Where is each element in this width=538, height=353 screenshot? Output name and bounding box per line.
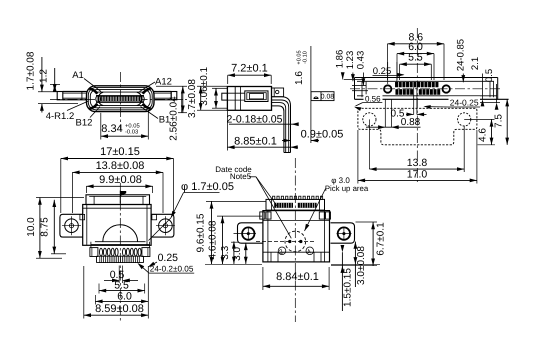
view A tongue lower line	[96, 101, 144, 103]
view D left ear junction square	[80, 214, 85, 219]
svg-text:0.43: 0.43	[355, 51, 366, 70]
dim 9.6±0.15 line	[211, 201, 213, 264]
dim 4.6±0.08 line	[222, 216, 224, 264]
svg-text:24-0.2±0.05: 24-0.2±0.05	[150, 265, 194, 274]
svg-text:0.88: 0.88	[401, 117, 421, 128]
view A right pocket	[137, 92, 142, 105]
dim 0.5 pads extension lines	[413, 88, 415, 115]
view A vertical centerline	[120, 72, 122, 130]
view D body inner walls	[86, 205, 88, 246]
dim 1.7±0.08 extension lines	[38, 91, 57, 93]
view C band left end	[354, 78, 356, 100]
view C band outer top	[355, 77, 498, 79]
view C band right step line	[476, 102, 500, 104]
view D right ear hole	[159, 219, 173, 233]
view B tail end	[284, 152, 291, 154]
svg-text:6.0: 6.0	[117, 290, 132, 302]
view C circle extension lines	[387, 62, 389, 84]
dim 17±0.15	[60, 159, 62, 214]
svg-text:1.6: 1.6	[294, 71, 305, 85]
dim 0.9 arrows	[282, 140, 291, 142]
view A corner wedge bottom-left	[89, 104, 97, 109]
view A horizontal centerline	[50, 98, 187, 100]
dim 8.34 extension lines	[100, 113, 102, 140]
svg-text:0.56: 0.56	[365, 94, 381, 103]
svg-text:4-R1.2: 4-R1.2	[46, 111, 75, 122]
dim 0.5 pads	[406, 113, 414, 115]
view A corner wedge top-right	[143, 89, 151, 94]
view A corner wedge top-left	[89, 89, 97, 94]
dim 8.84±0.1	[262, 267, 264, 290]
svg-text:2.1: 2.1	[470, 57, 481, 70]
view B latch	[249, 94, 263, 99]
svg-text:0.9±0.05: 0.9±0.05	[301, 129, 344, 141]
view B peg stub	[222, 93, 228, 100]
dim 8.6	[388, 43, 445, 45]
view D pin comb left bracket	[90, 248, 98, 257]
leader A1	[84, 79, 101, 92]
svg-text:7.2±0.1: 7.2±0.1	[231, 63, 268, 75]
view D top center notch	[119, 191, 121, 204]
view C band inner top	[357, 80, 494, 82]
view C band left inner verticals	[361, 82, 363, 98]
view D left ear hole	[65, 219, 79, 233]
view E right ear	[331, 223, 355, 243]
view E circled 4	[306, 247, 314, 255]
view D pin comb lower row	[97, 255, 144, 257]
dim 13.8	[369, 168, 464, 170]
svg-text:10.0: 10.0	[26, 217, 37, 237]
view A left pocket	[98, 92, 103, 105]
view E bottom extension line left	[205, 263, 262, 265]
leader B12	[90, 107, 100, 118]
view B dimple circle	[276, 90, 279, 93]
view E band pads group2	[298, 203, 317, 208]
view D dome	[103, 225, 138, 242]
svg-text:φ 1.7±0.05: φ 1.7±0.05	[181, 181, 234, 193]
view C bottom pad row group1	[396, 90, 398, 95]
dim 6.0 extensions	[396, 54, 398, 80]
view D vertical centerline	[119, 183, 121, 322]
dim 0.56 text	[364, 94, 383, 102]
dim 5.5	[400, 63, 432, 65]
view B window mid	[247, 93, 266, 100]
view E horizontal dashed centerline	[256, 241, 316, 243]
dim 5.5 view D	[98, 284, 100, 294]
view B left wall line	[234, 87, 236, 111]
view C band right end	[497, 78, 499, 100]
view C right hole circle	[443, 85, 450, 92]
dim 8.59±0.08	[83, 266, 85, 319]
dim 7.2±0.1	[228, 74, 272, 76]
svg-text:B12: B12	[76, 118, 93, 129]
view D pin contacts row1 group2	[123, 248, 126, 256]
view D pin contacts row1 group1	[100, 248, 103, 256]
view A shell outer stadium	[87, 86, 155, 112]
view D left ear	[60, 214, 83, 237]
view E shield tab left	[260, 212, 265, 219]
view B tail lead 1	[272, 97, 291, 153]
svg-text:7.5: 7.5	[493, 114, 504, 128]
svg-text:-0.10: -0.10	[302, 51, 308, 64]
dim 8.6 extensions	[387, 44, 389, 80]
view E vertical centerline	[294, 158, 296, 322]
dim 2.56±0.04 line	[182, 86, 184, 113]
svg-text:1.5±0.15: 1.5±0.15	[343, 268, 354, 307]
svg-text:Note5: Note5	[230, 172, 252, 181]
view E body inner walls	[267, 211, 269, 262]
dim 3.06±0.1 extensions	[212, 87, 227, 89]
view B tail lead 2	[272, 100, 289, 153]
view A left peg shaft	[63, 91, 87, 93]
leader pick up	[305, 189, 326, 232]
svg-text:6.7±0.1: 6.7±0.1	[376, 222, 387, 256]
dim 7.5 line	[506, 99, 508, 145]
view A contact band white pin gaps	[98, 97, 100, 101]
svg-text:3.0±0.08: 3.0±0.08	[356, 246, 367, 285]
view B window outer	[245, 91, 268, 102]
svg-text:+0.05: +0.05	[125, 123, 140, 130]
view E body	[263, 211, 330, 262]
dim 5.5 extensions	[399, 64, 401, 80]
svg-text:4.6±0.08: 4.6±0.08	[208, 220, 219, 259]
view D top cap inner lines	[89, 195, 146, 197]
dim 8.34 line	[101, 135, 149, 137]
view A cavity stadium	[90, 90, 150, 108]
dim 0.43 line	[362, 73, 364, 86]
dim 13.8±0.08	[71, 172, 73, 213]
view C flange right hole hidden	[458, 113, 471, 126]
dim 1.7±0.08 line	[41, 57, 43, 92]
GD&T frame	[311, 92, 334, 101]
dim 3.3 line	[233, 241, 235, 264]
dim 3.0±0.08 line	[354, 242, 356, 287]
svg-text:9.6±0.15: 9.6±0.15	[196, 213, 207, 252]
view D right ear	[151, 214, 174, 237]
view E circled 2	[278, 247, 286, 255]
view A shell inner stadium	[88, 88, 152, 110]
svg-text:1.2: 1.2	[39, 69, 50, 83]
view E bottom extension line right	[331, 263, 380, 265]
svg-text:8.59±0.08: 8.59±0.08	[95, 303, 144, 315]
svg-text:13.8±0.08: 13.8±0.08	[96, 160, 145, 172]
svg-text:9.9±0.08: 9.9±0.08	[99, 174, 142, 186]
dim 1.86 line	[342, 73, 344, 80]
view A contact band dark	[98, 96, 143, 102]
svg-text:2.56±0.04: 2.56±0.04	[169, 96, 180, 141]
dim 3.0 left line	[245, 243, 247, 264]
view E band pads group1	[274, 203, 293, 208]
svg-text:5.5: 5.5	[408, 52, 423, 64]
view A corner wedge bottom-right	[143, 104, 151, 109]
view B body outline	[227, 87, 271, 111]
view E shield tab right	[319, 212, 324, 219]
dim 8.85 line	[227, 146, 298, 148]
dim 0.5 view D	[118, 266, 120, 284]
view C vertical centerline	[416, 28, 418, 182]
svg-text:4.6: 4.6	[478, 128, 489, 142]
dim 1.5±0.15 line	[341, 252, 343, 311]
view D pin comb right bracket	[142, 248, 150, 257]
view B tail lead 3	[272, 103, 286, 153]
dim 9.9±0.08	[85, 186, 87, 193]
view E band	[266, 199, 325, 210]
dim 4.6 line	[491, 119, 493, 144]
view A left peg end cap	[57, 92, 63, 100]
dim 7.2±0.1 extensions	[227, 75, 229, 84]
view E left ear hole	[242, 227, 254, 239]
svg-text:1.7±0.08: 1.7±0.08	[26, 51, 37, 90]
view E top comb	[273, 196, 275, 199]
dim 8.75 line	[53, 200, 55, 254]
svg-text:2-0.18±0.05: 2-0.18±0.05	[227, 113, 283, 125]
dim 1.23 line	[352, 73, 354, 82]
view D top cap outer	[86, 195, 150, 205]
svg-text:1.23: 1.23	[345, 51, 356, 70]
view E left ear	[238, 223, 263, 243]
view C band inner bottom	[357, 95, 497, 97]
dim 17.0	[358, 179, 477, 181]
view C flange outline hidden	[358, 108, 477, 145]
leader B1	[141, 107, 159, 119]
view C top pad row	[395, 82, 397, 87]
view E pick up dots	[288, 240, 291, 243]
leader A12	[140, 82, 156, 92]
svg-text:0.08: 0.08	[321, 94, 334, 101]
svg-text:0.5: 0.5	[484, 69, 495, 82]
vertical reference line right of view B	[310, 46, 312, 143]
dim 3.06±0.1 line	[215, 88, 217, 108]
svg-text:8.75: 8.75	[40, 217, 51, 237]
view B tail lead 4	[272, 106, 284, 153]
leader date code 1	[256, 177, 278, 207]
dim 3.7±0.08 line	[200, 86, 202, 110]
view D right ear junction square	[152, 214, 157, 219]
svg-text:17.0: 17.0	[407, 169, 428, 181]
dim 3.3 extension	[231, 241, 239, 243]
svg-text:13.8: 13.8	[407, 157, 428, 169]
view C band outer bottom	[355, 98, 509, 100]
view C flange left hole hidden	[363, 113, 376, 126]
view C bottom pad row group2	[419, 90, 421, 95]
dim 6.0 view D	[94, 295, 96, 305]
view E right ear hole	[338, 227, 350, 239]
view D main body	[83, 205, 151, 246]
view A tongue upper line	[97, 91, 143, 93]
svg-text:24-0.85: 24-0.85	[455, 39, 466, 71]
dim 1.2 line	[54, 68, 56, 92]
view A right peg end cap	[171, 92, 177, 100]
leader phi1.7 shelf	[184, 192, 220, 194]
leader 4-R1.2	[67, 101, 89, 111]
svg-text:8.34: 8.34	[101, 123, 122, 135]
svg-text:3.0: 3.0	[232, 247, 243, 261]
view D lower shelf	[91, 244, 150, 246]
svg-text:17±0.15: 17±0.15	[100, 146, 140, 158]
dim 0.5 line right	[496, 84, 498, 103]
svg-text:3.3: 3.3	[220, 245, 231, 259]
dim 10.0 line	[39, 198, 41, 259]
dim 1.2 extension	[50, 83, 60, 85]
svg-text:8.85±0.1: 8.85±0.1	[234, 135, 277, 147]
view B top-right notch	[272, 88, 284, 97]
dim 24-0.25 text	[449, 96, 481, 107]
view A right peg shaft	[154, 91, 171, 93]
view C band right inner verticals	[489, 82, 491, 98]
dim 6.7±0.1 line	[372, 222, 374, 266]
view C left hole circle	[384, 85, 391, 92]
dim 2.56±0.04 extension lines	[156, 85, 187, 87]
dim 6.0	[397, 53, 434, 55]
view C band left step lines	[344, 78, 362, 80]
svg-text:24-0.25: 24-0.25	[450, 97, 479, 107]
dim 3.7±0.08 extensions	[197, 85, 227, 87]
dim 2.1 line	[482, 74, 484, 100]
svg-text:3.06±0.1: 3.06±0.1	[199, 66, 210, 105]
dim 4.6 extensions	[464, 118, 494, 120]
svg-text:8.84±0.1: 8.84±0.1	[276, 271, 319, 283]
dim 13.8 extensions	[463, 126, 465, 172]
view C horizontal centerline	[350, 88, 502, 90]
dim 2-0.18 underline leader	[229, 123, 298, 125]
dim 24-0.85 line	[462, 74, 464, 83]
view A tongue lower line2	[97, 105, 143, 107]
dim 0.88	[366, 126, 421, 128]
leader date code 2	[256, 177, 291, 239]
view E bottom band	[263, 251, 330, 253]
dim 17.0 extensions	[357, 130, 359, 184]
view A tongue upper line2	[96, 94, 144, 96]
svg-text:A1: A1	[72, 70, 84, 81]
dim 0.88 extension lines	[384, 99, 386, 127]
svg-text:-0.03: -0.03	[125, 129, 138, 136]
svg-text:Pick up area: Pick up area	[325, 184, 369, 193]
view E pick up circle	[285, 231, 306, 252]
svg-text:3.7±0.08: 3.7±0.08	[187, 79, 198, 118]
leader phi1.7	[171, 193, 184, 218]
svg-text:0.25: 0.25	[158, 252, 179, 264]
